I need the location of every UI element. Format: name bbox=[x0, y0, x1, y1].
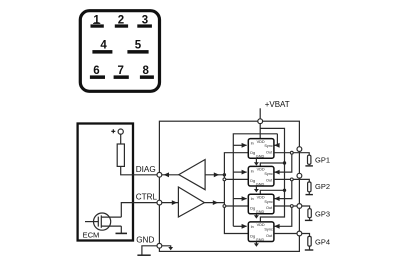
arrow In U1 bbox=[242, 143, 247, 148]
driver U3 bbox=[248, 194, 274, 214]
pin circle chain U2 bbox=[290, 178, 293, 181]
arrow Sync U2 bbox=[274, 170, 279, 175]
pin circle VBAT bbox=[258, 119, 263, 124]
junction VDD U3 bbox=[283, 189, 286, 192]
op-amp A2 (CTRL buffer) bbox=[178, 187, 204, 217]
svg-text:Sync: Sync bbox=[264, 228, 273, 232]
pin circle GP1 bbox=[297, 147, 302, 152]
wire Q1 drain to CTRL bbox=[121, 203, 157, 218]
wire VDD tap U2 bbox=[260, 163, 284, 166]
chassis arrow stub bbox=[162, 246, 171, 247]
svg-text:GND: GND bbox=[256, 155, 265, 159]
svg-text:GND: GND bbox=[256, 210, 265, 214]
arrow Sync U4 bbox=[274, 224, 279, 229]
wire GND to ground bbox=[142, 246, 157, 255]
svg-text:GP2: GP2 bbox=[315, 182, 330, 191]
pin circle chain U3 bbox=[290, 205, 293, 208]
arrow Sync U3 bbox=[274, 196, 279, 201]
In rail bbox=[233, 134, 277, 227]
wire Q1 source to ground bbox=[120, 226, 122, 233]
wire Out U2 / GP2 bbox=[274, 179, 309, 182]
load GP3 bbox=[305, 209, 330, 221]
arrow DIAG out bbox=[164, 172, 169, 177]
wire DIAG buffer input bbox=[205, 174, 224, 176]
svg-text:4: 4 bbox=[100, 40, 107, 52]
pin circle CTRL bbox=[157, 200, 162, 205]
arrow In U2 bbox=[242, 170, 247, 175]
arrow CTRL in bbox=[172, 200, 177, 205]
wire Out U1 / GP1 bbox=[274, 153, 309, 156]
wire In U4 bbox=[233, 225, 246, 227]
pin circle GP4 bbox=[297, 231, 302, 236]
pin circle GP3 bbox=[297, 204, 302, 209]
transistor Q1 (MOSFET in ECM) bbox=[85, 213, 121, 230]
connector pin numbers bbox=[93, 14, 149, 77]
ground (ECM internal) bbox=[116, 232, 128, 234]
pin circle Dg U3 bbox=[223, 205, 226, 208]
svg-text:In: In bbox=[251, 197, 254, 201]
wire In U3 bbox=[233, 198, 246, 200]
svg-text:Out: Out bbox=[266, 151, 273, 155]
wire In U1 bbox=[233, 144, 246, 146]
arrow Sync U1 bbox=[274, 143, 279, 148]
svg-text:In: In bbox=[251, 169, 254, 173]
arrow chassis bbox=[168, 247, 173, 250]
arrow into Dg rail bbox=[214, 172, 219, 177]
junction VDD U2 bbox=[283, 161, 286, 164]
svg-text:+VBAT: +VBAT bbox=[265, 100, 290, 109]
pin circle GND bbox=[157, 243, 162, 248]
junction Dg rail bbox=[223, 173, 226, 176]
wire terminal to resistor bbox=[120, 134, 122, 144]
pin circle GP2 bbox=[297, 173, 302, 178]
svg-text:7: 7 bbox=[117, 65, 123, 77]
ground arrow U4 bbox=[254, 242, 259, 247]
svg-text:In: In bbox=[251, 142, 254, 146]
svg-text:6: 6 bbox=[93, 65, 99, 77]
connector pin pads bbox=[90, 24, 154, 79]
wire VBAT to U1 VDD bbox=[259, 121, 261, 138]
op-amp A1 (DIAG buffer) bbox=[179, 160, 205, 190]
svg-text:Dg: Dg bbox=[250, 207, 255, 211]
wire VDD tap U3 bbox=[260, 190, 284, 194]
wire Dg U3 bbox=[224, 205, 248, 207]
svg-text:Out: Out bbox=[266, 178, 273, 182]
svg-text:GP3: GP3 bbox=[315, 209, 330, 218]
driver U4 bbox=[248, 222, 274, 242]
svg-text:Out: Out bbox=[266, 234, 273, 238]
svg-text:Out: Out bbox=[266, 206, 273, 210]
svg-text:Sync: Sync bbox=[264, 172, 273, 176]
module boundary box bbox=[159, 121, 299, 251]
load GP2 bbox=[306, 182, 331, 195]
arrow In U3 bbox=[242, 196, 247, 201]
driver U2 bbox=[248, 166, 274, 186]
svg-text:Sync: Sync bbox=[264, 200, 273, 204]
wire Dg U2 bbox=[224, 178, 248, 180]
pin circle DIAG bbox=[157, 172, 162, 177]
wire DIAG ECM-to-buffer bbox=[162, 174, 179, 176]
wire VDD feeder bbox=[260, 128, 284, 222]
svg-text:Sync: Sync bbox=[264, 144, 273, 148]
connector J1 (relay socket pinout) bbox=[80, 11, 159, 92]
resistor R1 bbox=[117, 144, 124, 166]
svg-text:CTRL: CTRL bbox=[136, 192, 158, 201]
ground arrow U2 bbox=[254, 186, 259, 192]
sync chain U1-U2 bbox=[274, 153, 292, 172]
load GP4 bbox=[305, 236, 330, 250]
svg-text:In: In bbox=[251, 225, 254, 229]
wire Out U4 / GP4 bbox=[274, 234, 310, 237]
ECM block bbox=[78, 124, 133, 241]
svg-text:8: 8 bbox=[142, 65, 149, 77]
svg-text:5: 5 bbox=[135, 40, 142, 52]
arrow In U4 bbox=[242, 224, 247, 229]
pin circle chain U1 bbox=[290, 151, 293, 154]
wire resistor to DIAG bbox=[121, 166, 158, 174]
Dg rail bbox=[224, 153, 248, 234]
wire +VBAT lead bbox=[259, 108, 261, 121]
svg-text:GND: GND bbox=[256, 238, 265, 242]
svg-text:GND: GND bbox=[136, 235, 154, 244]
wire CTRL buffer output bbox=[204, 202, 224, 204]
load GP1 bbox=[305, 155, 330, 166]
svg-text:GP4: GP4 bbox=[315, 238, 330, 247]
svg-text:ECM: ECM bbox=[83, 231, 100, 240]
svg-text:Dg: Dg bbox=[250, 151, 255, 155]
plus terminal bbox=[111, 129, 123, 134]
arrow CTRL out bbox=[213, 200, 218, 205]
svg-text:Dg: Dg bbox=[250, 179, 255, 183]
wire Out U3 / GP3 bbox=[274, 206, 310, 209]
ground arrow U3 bbox=[254, 214, 259, 219]
wire CTRL to buffer bbox=[162, 202, 179, 204]
sync chain U3-U4 bbox=[274, 206, 292, 226]
wire In U2 bbox=[233, 171, 246, 173]
svg-text:GND: GND bbox=[256, 182, 265, 186]
svg-text:GP1: GP1 bbox=[315, 156, 330, 165]
pin circle Dg U2 bbox=[223, 178, 226, 181]
sync chain U2-U3 bbox=[274, 179, 292, 198]
ground arrow U1 bbox=[254, 158, 259, 165]
ground (battery minus) bbox=[137, 254, 150, 256]
wire Sync U1 bbox=[274, 134, 277, 146]
svg-text:DIAG: DIAG bbox=[136, 165, 156, 174]
driver U1 bbox=[248, 139, 274, 159]
svg-text:Dg: Dg bbox=[250, 234, 255, 238]
